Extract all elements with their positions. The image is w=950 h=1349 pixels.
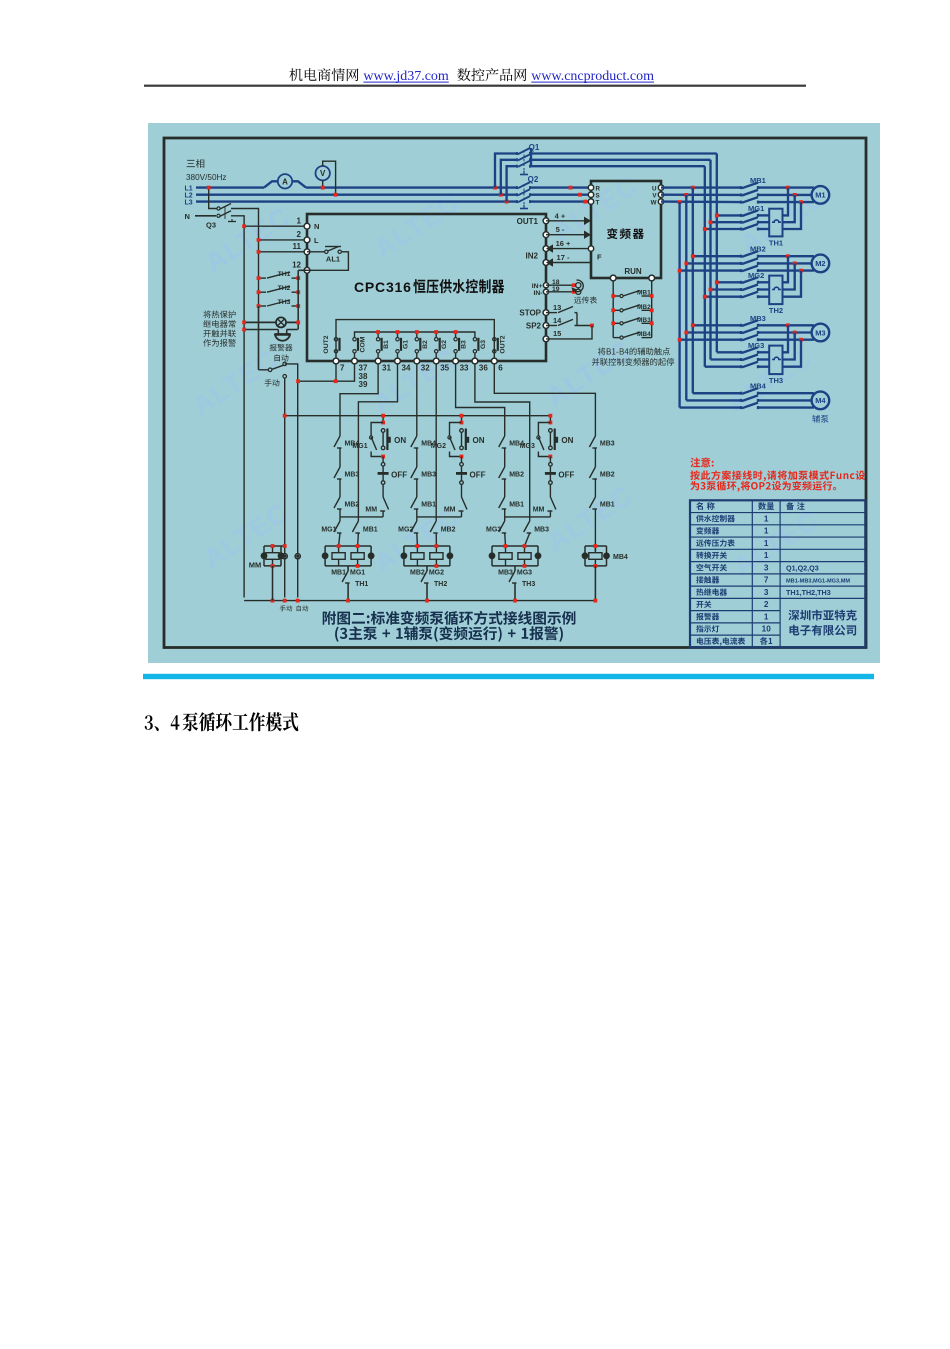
diagram inner border: [164, 138, 866, 648]
table company name: [789, 610, 857, 621]
svg-text:39: 39: [359, 380, 368, 389]
svg-text:OFF: OFF: [558, 471, 574, 480]
contactor MB2: [693, 255, 741, 257]
pushbutton OFF: [382, 457, 384, 463]
interlock contact MM: [461, 484, 463, 497]
note thermal-protection: [203, 311, 235, 319]
wire run left: [612, 281, 614, 338]
interlock contact MB2 (MB4 chain): [589, 467, 595, 478]
terminal IN2-: [543, 260, 549, 266]
wire feed chain MB1: [340, 364, 378, 436]
selector auto contact: [283, 362, 287, 366]
svg-text:MB3: MB3: [600, 441, 615, 448]
inverter terminal F: [588, 246, 593, 251]
interlock contact MB3 (MB4 chain): [589, 436, 595, 447]
interlock contact MB1 (MB2 chain): [411, 497, 417, 508]
svg-text:MB3: MB3: [534, 527, 549, 534]
interlock contact MB2 (MG2 chain): [435, 364, 437, 521]
wire feed chain MB2: [416, 364, 418, 436]
table rows: [696, 502, 714, 510]
junction V bus: [684, 193, 688, 197]
wire feed chain MB3: [456, 364, 505, 436]
svg-text:1: 1: [764, 527, 769, 536]
alarm contact AL1: [307, 251, 325, 253]
svg-text:MB1: MB1: [637, 290, 651, 297]
wire Q3 upper out: [231, 209, 259, 240]
svg-text:Q2: Q2: [528, 175, 539, 184]
svg-text:N: N: [185, 212, 190, 221]
section title: [145, 715, 180, 731]
junction N-1: [242, 224, 246, 228]
motor M4: [812, 392, 830, 410]
svg-text:1: 1: [764, 514, 769, 523]
bus Q1a vertical: [716, 154, 718, 353]
terminal 14 SP2: [543, 323, 549, 329]
interlock contact MB3 (MG3 chain): [475, 364, 530, 521]
svg-text:G2: G2: [441, 340, 448, 349]
breaker Q2 blades: [518, 186, 530, 189]
wire feed chain MB4: [494, 364, 595, 436]
svg-text:MB4: MB4: [637, 331, 651, 338]
wire manual rail: [284, 378, 286, 597]
svg-text:33: 33: [460, 364, 469, 373]
interlock contact MB1 (MB4 chain): [589, 497, 595, 508]
label aux pump: [812, 415, 828, 423]
svg-text:MB2: MB2: [509, 472, 524, 479]
wire terminal7 drop: [335, 364, 337, 381]
wires TH2 risers: [783, 256, 789, 282]
svg-text:MB1: MB1: [331, 570, 346, 577]
svg-text:35: 35: [440, 364, 449, 373]
wire bus to MB4: [693, 392, 741, 394]
contact STOP: [546, 312, 557, 314]
svg-text:2: 2: [297, 230, 302, 239]
terminal 36: [472, 358, 478, 364]
inverter terminal T: [588, 199, 593, 204]
junction L2-voltmeter: [334, 193, 338, 197]
inverter run terminals: [610, 275, 616, 281]
svg-text:MB2: MB2: [410, 570, 425, 577]
wire 16+: [553, 248, 591, 250]
svg-text:A: A: [282, 177, 288, 186]
svg-text:MB4: MB4: [345, 441, 360, 448]
wire W out: [661, 200, 741, 203]
wires TH1 risers: [783, 188, 789, 216]
terminal 13 STOP: [543, 310, 549, 316]
svg-text:G1: G1: [403, 340, 410, 349]
junction strip 33: [455, 332, 457, 337]
wire: [416, 479, 418, 497]
contact TH1 (alarm): [259, 277, 267, 279]
controller CPC316 box: [307, 214, 546, 361]
contact TH2 (alarm): [259, 291, 267, 293]
svg-text:MB4: MB4: [613, 554, 628, 561]
wires to motor M1: [758, 186, 814, 188]
aux contact MB4: [613, 337, 620, 339]
interlock contact MB4 (MB3 chain): [499, 436, 505, 447]
junction L1 inverter feed: [569, 186, 573, 190]
svg-text:MB1: MB1: [363, 527, 378, 534]
svg-text:5 -: 5 -: [556, 225, 565, 234]
junction strip 31: [377, 332, 379, 337]
interlock contact MG1 (MB1 chain): [339, 517, 341, 521]
contactor coil MM with indicator lamps: [264, 545, 281, 547]
terminal IN+: [543, 283, 548, 288]
svg-text:OUT2: OUT2: [500, 335, 507, 353]
wire 5-: [546, 234, 584, 236]
terminal 37: [352, 358, 358, 364]
alarm bell: [277, 330, 279, 335]
svg-text:ON: ON: [394, 436, 406, 445]
junction L-11: [257, 250, 261, 254]
inverter box: [591, 181, 661, 278]
svg-text:7: 7: [764, 576, 769, 585]
svg-text:MG1: MG1: [350, 570, 365, 577]
strip contact B2 (32): [415, 338, 418, 341]
svg-text:B2: B2: [422, 340, 429, 349]
svg-text:TH2: TH2: [434, 581, 447, 588]
svg-text:TH1: TH1: [278, 271, 291, 278]
svg-text:MB4: MB4: [421, 441, 436, 448]
control rail bottom: [244, 600, 595, 602]
header rule: [144, 85, 806, 87]
interlock contact MG3 (MB3 chain): [504, 517, 506, 521]
selector plug manual: [282, 554, 287, 559]
svg-text:Q1: Q1: [529, 143, 540, 152]
svg-text:MG1: MG1: [321, 527, 336, 534]
svg-text:AL1: AL1: [326, 255, 340, 264]
svg-text:CPC316: CPC316: [354, 279, 412, 295]
strip contact COM (37): [353, 338, 356, 341]
inverter terminal V: [658, 192, 663, 197]
wire L1: [196, 186, 264, 188]
svg-text:MB2: MB2: [441, 527, 456, 534]
svg-text:1: 1: [764, 612, 769, 621]
voltmeter V: [316, 166, 330, 180]
svg-text:OUT2: OUT2: [323, 335, 330, 353]
wires to motor M3: [758, 324, 814, 326]
svg-text:TH3: TH3: [522, 581, 535, 588]
terminal 33: [453, 358, 459, 364]
svg-text:MG2: MG2: [398, 527, 413, 534]
wire com tie: [298, 364, 355, 381]
note B1-B4 line1: [598, 348, 670, 356]
terminal 2: [304, 237, 310, 243]
terminal OUT1-: [543, 232, 549, 238]
svg-text:L: L: [314, 236, 319, 245]
strip contact G2 (35): [435, 338, 438, 341]
junction strip 35: [435, 332, 437, 337]
svg-text:MB2: MB2: [750, 245, 766, 254]
svg-text:OFF: OFF: [470, 471, 486, 480]
motor M2: [812, 255, 830, 273]
junction U bus: [691, 186, 695, 190]
strip contact B1 (31): [376, 338, 379, 341]
terminal 1 wire: [244, 225, 307, 227]
wire U out: [661, 186, 741, 188]
svg-text:TH1,TH2,TH3: TH1,TH2,TH3: [786, 588, 831, 597]
label remote sensor: [574, 296, 597, 303]
svg-text:7: 7: [340, 364, 345, 373]
inverter terminal W: [658, 199, 663, 204]
aux contact MG2: [450, 423, 462, 437]
svg-text:L1: L1: [185, 185, 193, 192]
svg-text:MG3: MG3: [748, 341, 764, 350]
svg-text:TH3: TH3: [769, 376, 783, 385]
pushbutton ON: [549, 429, 553, 433]
svg-text:STOP: STOP: [519, 309, 541, 318]
interlock contact MB3 (MB2 chain): [411, 467, 417, 478]
svg-text:3: 3: [764, 563, 769, 572]
pushbutton ON: [381, 429, 385, 433]
wire on-column return: [340, 516, 383, 518]
svg-text:M2: M2: [815, 259, 825, 268]
svg-text:MM: MM: [533, 507, 545, 514]
wire: [504, 448, 506, 467]
svg-text:R: R: [596, 186, 601, 193]
strip contact OUT2 (6): [493, 338, 496, 341]
svg-text:MG3: MG3: [486, 527, 501, 534]
wire Q1 pole3: [507, 166, 517, 201]
interlock contact MB4 (MB1 chain): [334, 436, 340, 447]
wire: [416, 509, 418, 517]
contactor coils MB3 MG3 with indicator lamps: [492, 545, 538, 547]
wire on-column return: [417, 516, 462, 518]
svg-text:12: 12: [292, 260, 301, 269]
terminal strip outer bracket OUT2: [336, 320, 494, 353]
wire: [594, 448, 596, 467]
pushbutton ON: [460, 429, 464, 433]
thermal contact TH3: [509, 571, 515, 582]
svg-text:ON: ON: [561, 436, 573, 445]
svg-text:MB3: MB3: [421, 472, 436, 479]
page header: [289, 68, 358, 81]
terminal 32: [414, 358, 420, 364]
strip contact B3 (33): [454, 338, 457, 341]
wire MM feed: [281, 545, 285, 547]
wire run right: [651, 281, 653, 338]
svg-text:SP2: SP2: [526, 322, 542, 331]
svg-text:MB3: MB3: [345, 472, 360, 479]
terminal 11 wire: [259, 251, 308, 253]
svg-text:MB3: MB3: [637, 317, 651, 324]
svg-text:T: T: [596, 200, 600, 207]
bus U vertical: [692, 188, 694, 394]
junction strip 32: [416, 332, 418, 337]
aux contact MG1: [371, 423, 383, 437]
svg-text:MM: MM: [444, 507, 456, 514]
terminal 7: [333, 358, 339, 364]
junction L2 Q1-branch: [499, 193, 503, 197]
wire N: [195, 215, 216, 217]
junction L3 Q1-branch: [505, 200, 509, 204]
thermal relay TH1: [769, 209, 782, 237]
wire on-column return: [505, 516, 551, 518]
wire N rail: [243, 226, 245, 597]
svg-text:10: 10: [762, 625, 772, 634]
svg-text:11: 11: [293, 242, 302, 251]
cyan divider bar: [143, 674, 874, 679]
junction rails: [271, 599, 275, 603]
wire 4+: [546, 220, 584, 222]
svg-text:B3: B3: [461, 340, 468, 349]
svg-text:34: 34: [402, 364, 411, 373]
bus W vertical: [678, 202, 680, 408]
wire L2: [196, 194, 591, 196]
terminal 2 wire: [259, 239, 308, 241]
label alarm bell: [270, 344, 293, 351]
table grid: [690, 500, 865, 647]
contactor MB1: [742, 186, 758, 190]
note red line3: [691, 481, 837, 492]
terminal IN2+: [543, 246, 549, 252]
aux contact MB2: [613, 309, 620, 311]
interlock contact MB3 (MB1 chain): [334, 467, 340, 478]
svg-text:4 +: 4 +: [555, 211, 566, 220]
svg-text:F: F: [597, 253, 602, 262]
svg-text:B1: B1: [383, 340, 390, 349]
motor M3: [812, 324, 830, 342]
contactor MG3: [717, 351, 741, 353]
svg-text:V: V: [320, 169, 326, 178]
aux contact MB1: [613, 295, 620, 297]
interlock contact MM: [549, 484, 551, 497]
bus V vertical: [685, 195, 687, 401]
inverter terminal U: [658, 185, 663, 190]
svg-text:MB1: MB1: [750, 176, 766, 185]
label manual: [265, 379, 280, 386]
svg-text:U: U: [652, 186, 657, 193]
svg-text:Q3: Q3: [206, 221, 216, 230]
svg-text:M4: M4: [815, 396, 826, 405]
svg-text:TH2: TH2: [278, 285, 291, 292]
note red title: [690, 457, 713, 467]
selector plug auto: [295, 554, 300, 559]
svg-text:OUT1: OUT1: [517, 217, 539, 226]
wire on-column MG1: [382, 416, 384, 423]
svg-text:MM: MM: [249, 561, 262, 570]
wire: [339, 479, 341, 497]
aux contact MG3: [538, 423, 550, 437]
motor M1: [812, 186, 830, 204]
wire Q3 lower out: [231, 216, 244, 226]
bus Q1b vertical: [709, 160, 711, 360]
contactor MG1: [717, 214, 741, 216]
wire: [416, 448, 418, 467]
svg-text:MG2: MG2: [429, 570, 444, 577]
interlock contact MB1 (MB3 chain): [499, 497, 505, 508]
svg-text:MB2: MB2: [345, 502, 360, 509]
svg-text:TH1: TH1: [355, 581, 368, 588]
wire Q1 pole1: [495, 154, 517, 188]
interlock contact MM: [382, 484, 384, 497]
caption line2: [335, 626, 563, 642]
pushbutton OFF: [461, 457, 463, 463]
junction L-2: [257, 238, 261, 242]
breaker Q3: [217, 207, 220, 210]
svg-text:N: N: [314, 222, 319, 231]
svg-text:M1: M1: [815, 191, 825, 200]
svg-text:MB4: MB4: [750, 382, 767, 391]
svg-text:16 +: 16 +: [556, 239, 571, 248]
terminal IN-: [543, 289, 548, 294]
terminal 12: [304, 267, 310, 273]
wire L rail lower: [258, 306, 260, 370]
svg-text:MB3: MB3: [498, 570, 513, 577]
contactor MB4: [692, 392, 694, 394]
terminal 11: [304, 249, 310, 255]
wire: [339, 509, 341, 517]
label auto small: [297, 605, 309, 611]
svg-text:MB1: MB1: [600, 502, 615, 509]
wire L rail: [258, 240, 260, 370]
svg-text:32: 32: [421, 364, 430, 373]
svg-text:G3: G3: [480, 340, 487, 349]
breaker Q1 blades: [518, 152, 530, 155]
contactor coils MB2 MG2 with indicator lamps: [404, 545, 450, 547]
inverter terminal S: [588, 192, 593, 197]
interlock contact MG2 (MB2 chain): [416, 517, 418, 521]
svg-text:OFF: OFF: [391, 471, 407, 480]
aux contact MB3: [613, 322, 620, 324]
svg-text:COM: COM: [360, 336, 367, 352]
svg-text:1: 1: [297, 216, 302, 225]
svg-text:2: 2: [764, 600, 769, 609]
contactor coil MB4 with indicator lamps: [585, 545, 607, 547]
svg-text:MB1-MB3,MG1-MG3,MM: MB1-MB3,MG1-MG3,MM: [786, 579, 850, 585]
junction strip 34: [397, 332, 399, 337]
svg-text:MB1: MB1: [421, 502, 436, 509]
terminal 34: [395, 358, 401, 364]
wires to motor M2: [758, 255, 814, 257]
svg-text:M3: M3: [815, 328, 825, 337]
svg-text:17 -: 17 -: [557, 253, 570, 262]
interlock contact MB4 (MB2 chain): [411, 436, 417, 447]
control rail upper: [285, 415, 551, 417]
junction L3 inverter feed: [583, 200, 587, 204]
wire: [504, 479, 506, 497]
thermal contact TH2: [421, 571, 427, 582]
note red line2: [690, 470, 865, 481]
svg-text:14: 14: [553, 316, 562, 325]
thermal relay TH2: [769, 276, 782, 305]
pushbutton OFF: [549, 457, 551, 463]
strip contact G3 (36): [473, 338, 476, 341]
terminal 6: [491, 358, 497, 364]
alarm lamp: [276, 317, 286, 327]
junction N-alarm: [242, 321, 246, 325]
terminal OUT1+: [543, 218, 549, 224]
contact SP2: [546, 325, 557, 327]
svg-text:MG2: MG2: [748, 271, 764, 280]
svg-text:MB4: MB4: [509, 441, 524, 448]
junction L2 inverter feed: [578, 193, 582, 197]
svg-text:15: 15: [553, 329, 561, 338]
terminal 31: [375, 358, 381, 364]
interlock contact MB2 (MB3 chain): [499, 467, 505, 478]
bus Q1c vertical: [704, 166, 706, 367]
thermal relay TH3: [769, 346, 782, 375]
svg-text:1: 1: [764, 539, 769, 548]
label manual small: [280, 605, 292, 611]
svg-text:Q1,Q2,Q3: Q1,Q2,Q3: [786, 563, 819, 572]
contact TH3 (alarm): [259, 305, 267, 307]
wire L3: [196, 200, 591, 202]
svg-text:31: 31: [382, 364, 391, 373]
wire Q1 pole2: [501, 160, 517, 195]
wire IN+ sensor: [546, 284, 574, 286]
terminal 15: [543, 336, 549, 342]
